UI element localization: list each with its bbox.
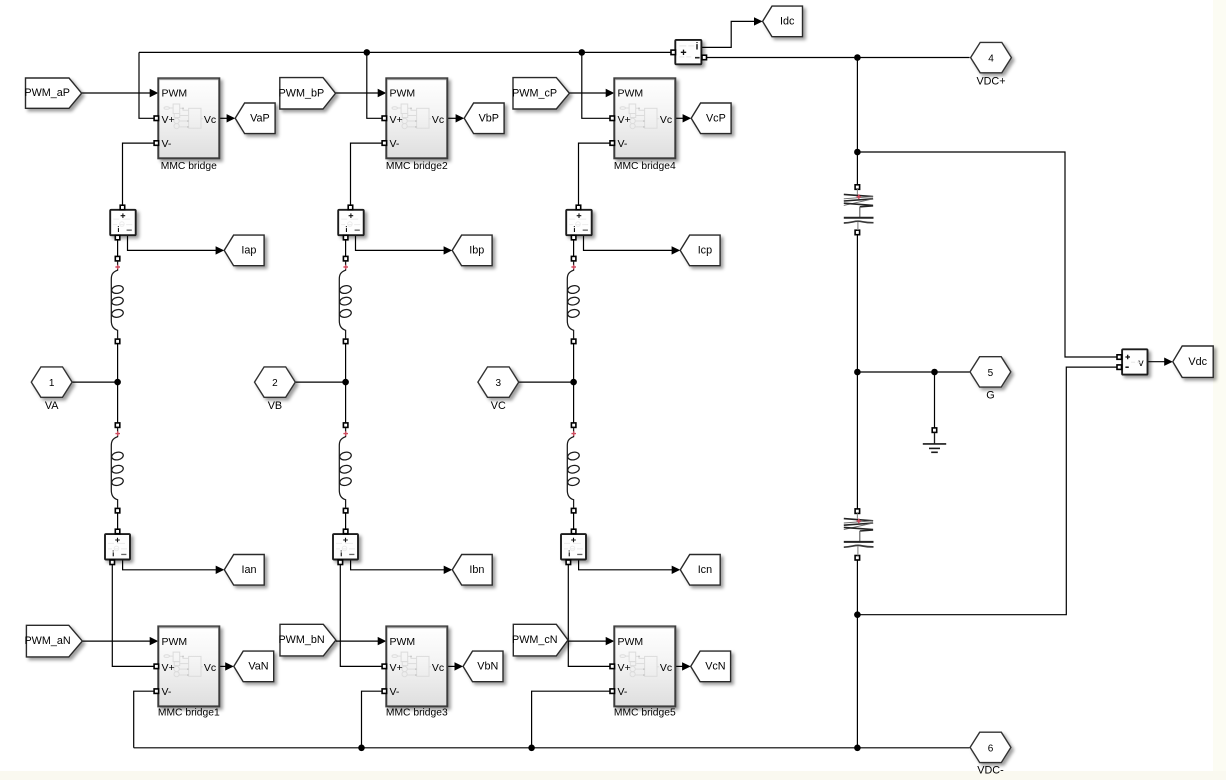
svg-text:VbP: VbP (479, 112, 499, 124)
svg-text:PWM_aP: PWM_aP (24, 87, 70, 99)
svg-text:V-: V- (162, 138, 172, 150)
svg-text:VbN: VbN (477, 661, 498, 673)
svg-text:V+: V+ (162, 114, 175, 126)
svg-text:4: 4 (988, 54, 994, 65)
svg-text:MMC bridge5: MMC bridge5 (614, 708, 676, 719)
svg-text:5: 5 (988, 368, 994, 379)
svg-text:Icn: Icn (698, 564, 712, 576)
svg-text:VB: VB (268, 400, 282, 412)
svg-text:MMC bridge2: MMC bridge2 (386, 161, 448, 172)
svg-text:VA: VA (45, 400, 59, 412)
svg-text:Idc: Idc (780, 16, 795, 28)
svg-text:V-: V- (390, 138, 400, 150)
svg-text:Vc: Vc (432, 662, 444, 674)
svg-text:V-: V- (390, 686, 400, 698)
svg-text:Ian: Ian (241, 564, 256, 576)
svg-text:V+: V+ (618, 662, 631, 674)
svg-text:VaP: VaP (250, 112, 270, 124)
svg-text:Vc: Vc (204, 662, 216, 674)
svg-text:1: 1 (49, 378, 55, 389)
svg-text:Vdc: Vdc (1188, 356, 1207, 368)
svg-text:Vc: Vc (660, 114, 672, 126)
svg-text:Vc: Vc (432, 114, 444, 126)
svg-text:PWM: PWM (390, 636, 416, 648)
svg-text:MMC bridge: MMC bridge (161, 161, 217, 172)
svg-text:PWM: PWM (390, 88, 416, 100)
svg-text:V+: V+ (390, 662, 403, 674)
svg-text:VaN: VaN (248, 661, 268, 673)
svg-text:MMC bridge3: MMC bridge3 (386, 708, 448, 719)
svg-text:VDC-: VDC- (977, 765, 1004, 777)
svg-text:PWM_bP: PWM_bP (279, 87, 325, 99)
svg-text:PWM_cP: PWM_cP (512, 87, 557, 99)
svg-text:PWM_aN: PWM_aN (24, 635, 70, 647)
svg-text:Ibp: Ibp (469, 245, 484, 257)
svg-text:VDC+: VDC+ (976, 76, 1005, 88)
svg-text:Ibn: Ibn (469, 564, 484, 576)
svg-text:Iap: Iap (241, 245, 256, 257)
svg-text:3: 3 (496, 378, 502, 389)
svg-text:V+: V+ (390, 114, 403, 126)
svg-text:PWM_cN: PWM_cN (512, 634, 558, 646)
svg-text:PWM: PWM (618, 636, 644, 648)
svg-text:V+: V+ (162, 662, 175, 674)
svg-text:VcP: VcP (706, 112, 726, 124)
svg-text:PWM: PWM (618, 88, 644, 100)
svg-text:V-: V- (618, 686, 628, 698)
svg-text:G: G (986, 390, 994, 402)
svg-text:Vc: Vc (204, 114, 216, 126)
svg-text:MMC bridge4: MMC bridge4 (614, 161, 676, 172)
svg-text:Icp: Icp (698, 245, 712, 257)
svg-text:V+: V+ (618, 114, 631, 126)
svg-text:VC: VC (491, 400, 506, 412)
svg-text:Vc: Vc (660, 662, 672, 674)
svg-text:2: 2 (272, 378, 278, 389)
svg-text:V-: V- (618, 138, 628, 150)
svg-text:V-: V- (162, 686, 172, 698)
svg-text:6: 6 (988, 743, 994, 754)
svg-text:MMC bridge1: MMC bridge1 (158, 708, 220, 719)
svg-text:PWM_bN: PWM_bN (278, 634, 324, 646)
svg-text:PWM: PWM (162, 636, 188, 648)
svg-text:VcN: VcN (705, 661, 725, 673)
svg-text:PWM: PWM (162, 88, 188, 100)
